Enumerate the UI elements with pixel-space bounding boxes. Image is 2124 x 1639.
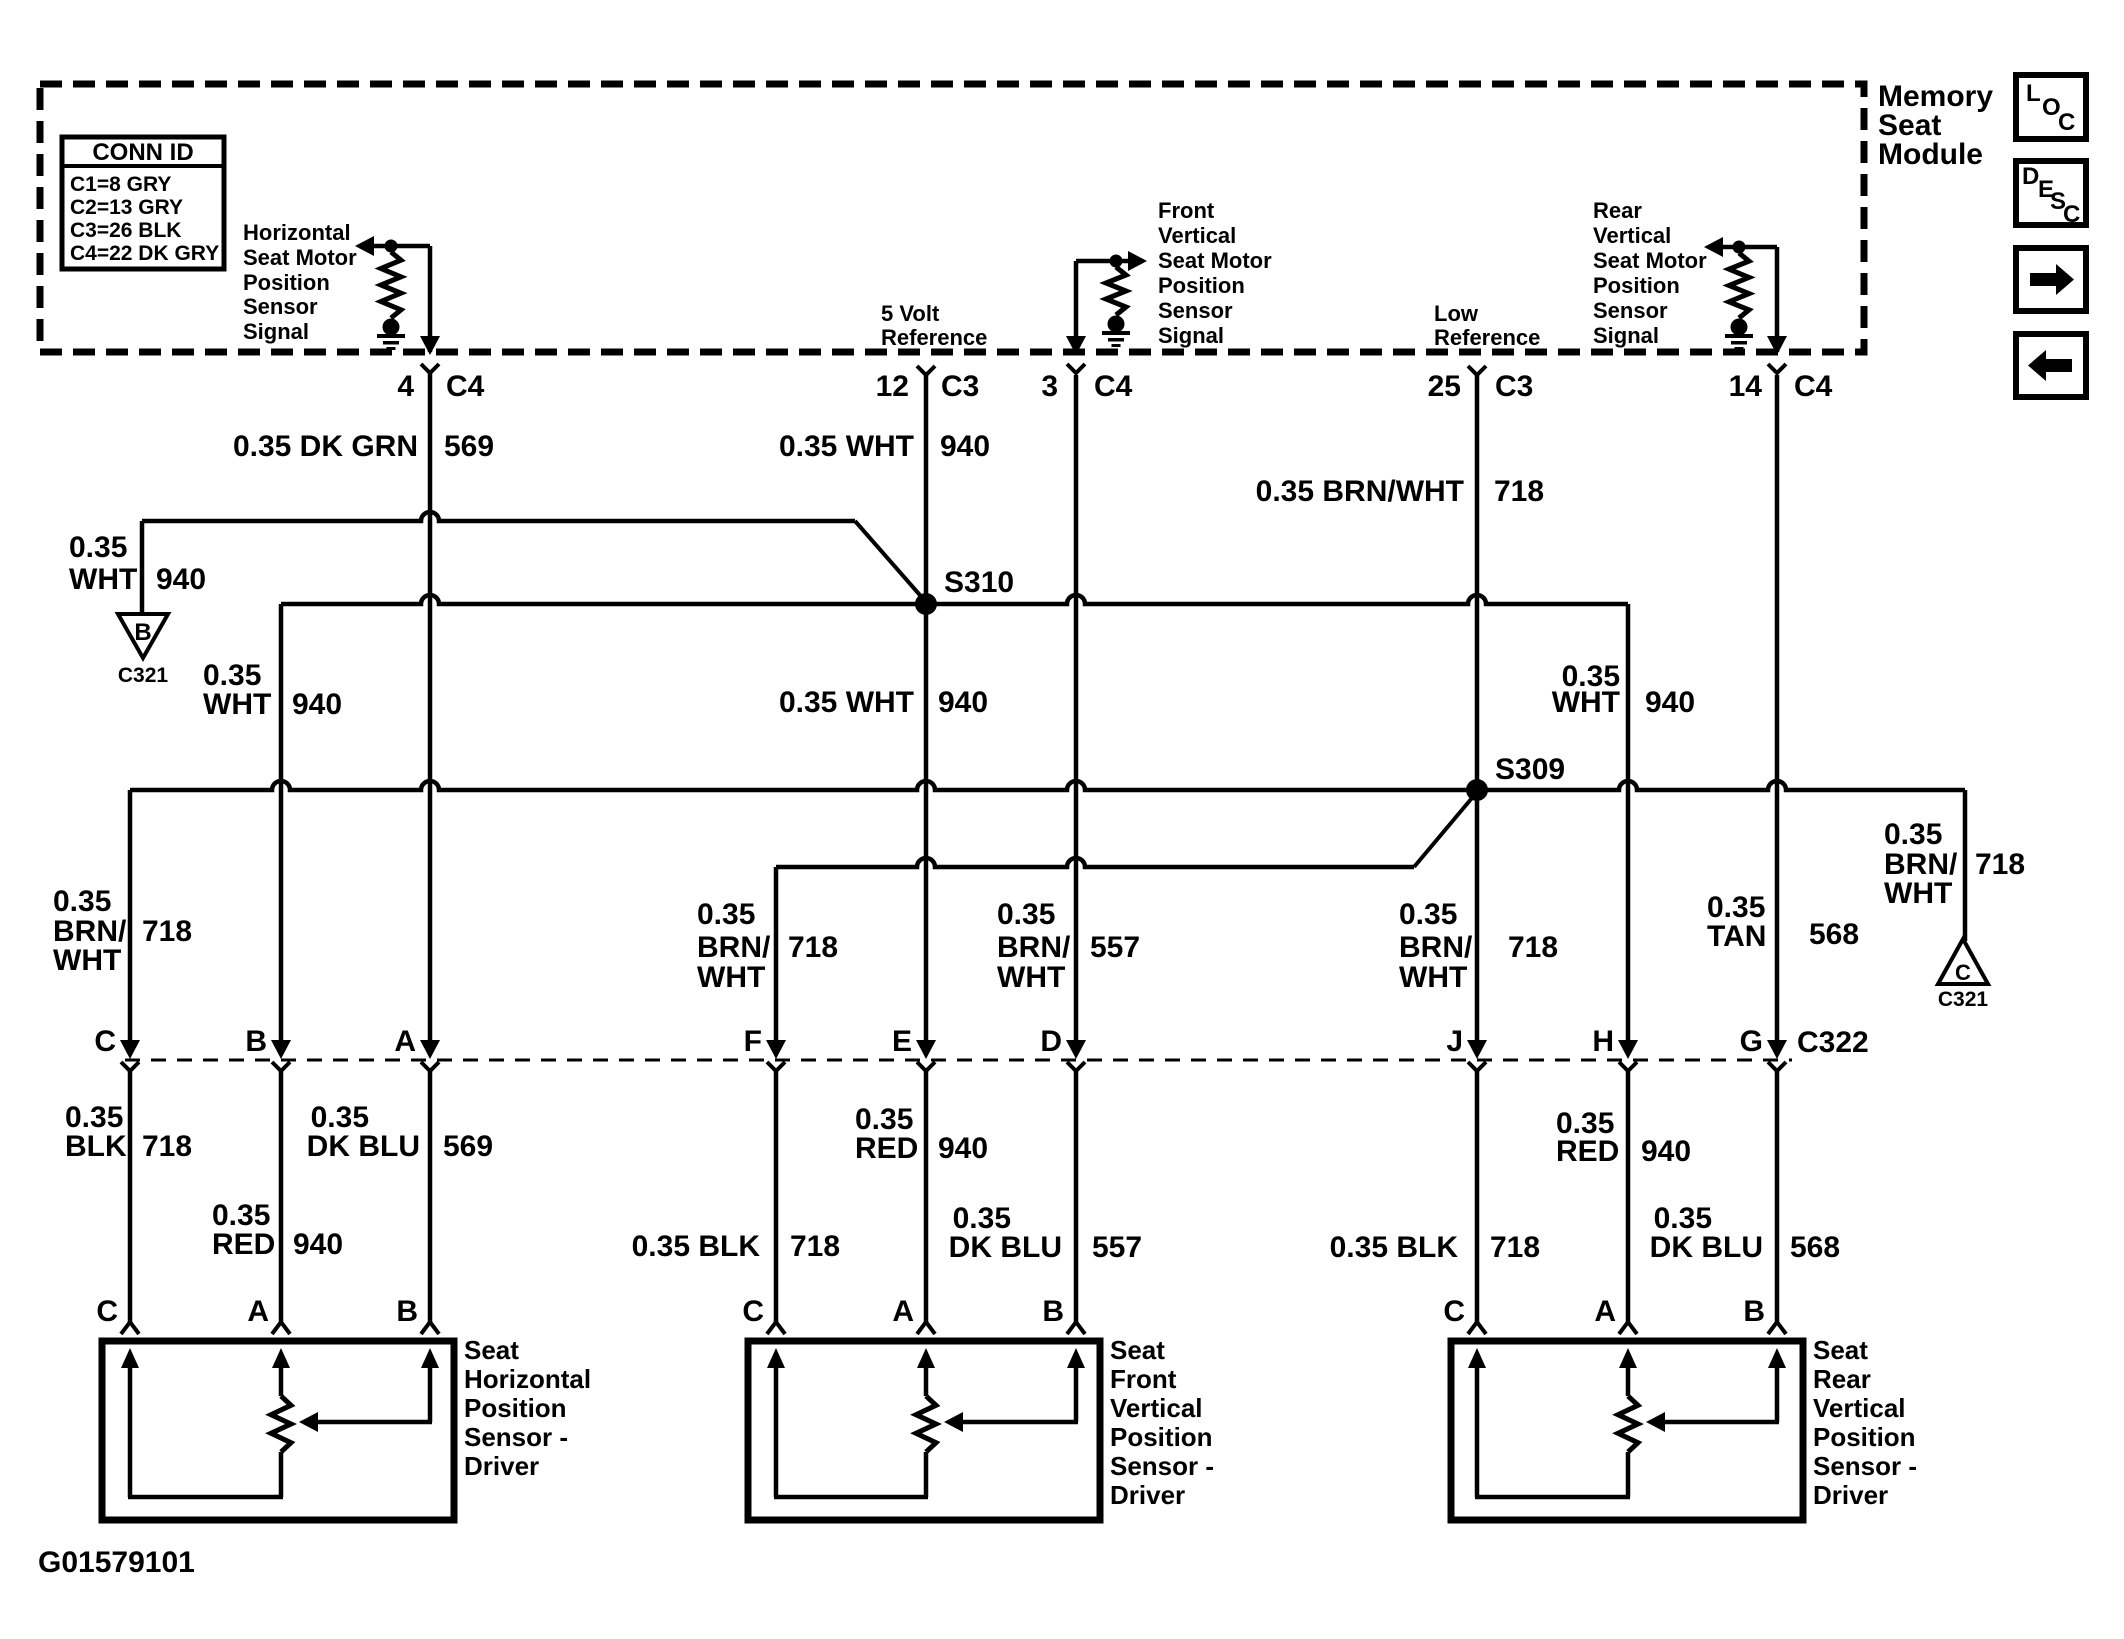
wire label 0.35 BLK 718 (sensor3 C) [1330, 1231, 1540, 1264]
connector C322 pin C [94, 1025, 140, 1071]
svg-text:E: E [892, 1025, 912, 1058]
svg-text:0.35: 0.35 [69, 531, 127, 564]
node: junction dot at resistor R2 top [1110, 255, 1123, 268]
svg-text:C: C [2058, 109, 2075, 136]
svg-text:940: 940 [940, 430, 990, 463]
sensor 3 internal wire pin C with up arrow [1468, 1348, 1486, 1497]
wire: splice branch to C321-B, horizontal run y=521 [142, 512, 855, 521]
svg-text:Vertical: Vertical [1158, 223, 1236, 248]
svg-text:940: 940 [938, 1132, 988, 1165]
svg-text:Rear: Rear [1593, 198, 1642, 223]
wire label 0.35 RED 940 (sensor1 A) [212, 1199, 343, 1261]
svg-text:S310: S310 [944, 566, 1014, 599]
svg-text:A: A [892, 1295, 914, 1328]
svg-text:BRN/: BRN/ [697, 931, 771, 964]
svg-text:WHT: WHT [997, 961, 1065, 994]
svg-text:WHT: WHT [1552, 686, 1620, 719]
svg-text:940: 940 [293, 1228, 343, 1261]
connector ID table [62, 137, 224, 269]
svg-text:C4=22 DK GRY: C4=22 DK GRY [70, 242, 219, 265]
svg-text:Driver: Driver [1813, 1480, 1888, 1510]
wire: C322 A to sensor1 pin B (0.35 DK BLU 569) [428, 1071, 433, 1322]
svg-text:G01579101: G01579101 [38, 1546, 195, 1579]
svg-text:C: C [2063, 201, 2080, 228]
svg-text:S309: S309 [1495, 753, 1565, 786]
connector C322 pin F [744, 1025, 786, 1071]
svg-text:940: 940 [938, 686, 988, 719]
svg-text:718: 718 [1490, 1231, 1540, 1264]
sensor 3 wire bottom return C to resistor [1475, 1495, 1630, 1500]
wire: C322 F to sensor2 pin C (0.35 BLK 718) [774, 1071, 779, 1322]
wire: C322 J to sensor3 pin C (0.35 BLK 718) [1475, 1071, 1480, 1322]
svg-text:Seat Motor: Seat Motor [243, 245, 357, 270]
module U1 name label [1878, 80, 1993, 171]
svg-text:0.35 DK GRN: 0.35 DK GRN [233, 430, 418, 463]
svg-text:Sensor -: Sensor - [1110, 1451, 1214, 1481]
pin 4 C4 connector fork [397, 364, 484, 403]
sensor 3 wiper arm with arrow [1646, 1412, 1779, 1432]
forward arrow button box [2016, 248, 2086, 311]
wire label 0.35 WHT 940 (B column) [203, 659, 342, 721]
connector C322 pin A [394, 1025, 440, 1071]
svg-text:0.35 WHT: 0.35 WHT [779, 686, 914, 719]
sensor box 3 outline [1451, 1341, 1803, 1520]
wire: G column (0.35 TAN 568) [1775, 375, 1780, 1042]
wire label 0.35 BRN/WHT 718 (low ref) [1256, 475, 1544, 508]
wire: F column (0.35 BRN/WHT 718) [774, 867, 779, 1042]
svg-text:3: 3 [1041, 370, 1058, 403]
svg-text:Rear: Rear [1813, 1364, 1871, 1394]
wire: A column (0.35 DK GRN 569) [428, 373, 433, 1042]
svg-text:568: 568 [1809, 918, 1859, 951]
svg-text:B: B [396, 1295, 418, 1328]
wire label 0.35 DK GRN 569 [233, 430, 494, 463]
wire: C322 C to sensor1 pin C (0.35 BLK 718) [128, 1071, 133, 1322]
svg-text:Front: Front [1110, 1364, 1177, 1394]
svg-text:DK BLU: DK BLU [1650, 1231, 1763, 1264]
sensor 1 internal wire pin C with up arrow [121, 1348, 139, 1497]
pin 3 C4 connector fork [1041, 364, 1132, 403]
svg-text:557: 557 [1092, 1231, 1142, 1264]
svg-text:WHT: WHT [69, 563, 137, 596]
svg-text:TAN: TAN [1707, 920, 1766, 953]
svg-text:WHT: WHT [1884, 877, 1952, 910]
wire: C322 G to sensor3 pin B (0.35 DK BLU 568) [1775, 1071, 1780, 1322]
wire: H column from bus 2 [1626, 604, 1631, 1042]
wire label 0.35 WHT 940 (H column) [1552, 660, 1695, 719]
potentiometer resistor inside sensor 1 [271, 1396, 291, 1452]
wire label 0.35 DK BLU 557 (sensor2 B) [949, 1202, 1142, 1264]
svg-text:569: 569 [444, 430, 494, 463]
sensor 2 wire bottom return C to resistor [774, 1495, 928, 1500]
connector C322 pin H [1592, 1025, 1638, 1071]
svg-text:WHT: WHT [1399, 961, 1467, 994]
svg-text:Position: Position [1110, 1422, 1213, 1452]
svg-text:Horizontal: Horizontal [464, 1364, 591, 1394]
resistor R3 (rear vertical position sensor internal) [1729, 253, 1749, 318]
svg-text:J: J [1446, 1025, 1463, 1058]
wire: C322 E to sensor2 pin A (0.35 RED 940) [924, 1071, 929, 1322]
svg-text:Position: Position [1158, 273, 1245, 298]
sensor 2 internal wire pin C with up arrow [767, 1348, 785, 1497]
svg-text:RED: RED [212, 1228, 275, 1261]
wire label 0.35 BLK 718 (sensor2 C) [632, 1230, 840, 1263]
svg-text:DK BLU: DK BLU [307, 1130, 420, 1163]
svg-text:Vertical: Vertical [1593, 223, 1671, 248]
wire: low reference bus y=790 through splice S309 [130, 781, 1965, 790]
potentiometer resistor inside sensor 3 [1618, 1396, 1638, 1452]
svg-text:BRN/: BRN/ [997, 931, 1071, 964]
svg-text:718: 718 [1975, 848, 2025, 881]
wire: pin 3 C4 drop inside module [1066, 261, 1086, 355]
svg-text:C3=26 BLK: C3=26 BLK [70, 219, 181, 242]
svg-text:DK BLU: DK BLU [949, 1231, 1062, 1264]
svg-text:Position: Position [243, 270, 330, 295]
svg-text:0.35 WHT: 0.35 WHT [779, 430, 914, 463]
sensor 1 internal wire pin A with up arrow [272, 1348, 290, 1396]
svg-text:718: 718 [1508, 931, 1558, 964]
connector C321 cavity C triangle [1938, 939, 1988, 985]
svg-text:Signal: Signal [243, 319, 309, 344]
sensor box 2 outline [748, 1341, 1100, 1520]
wire: E column below S310 [924, 375, 929, 1042]
label: 5 Volt Reference [881, 301, 987, 350]
svg-text:C321: C321 [1938, 988, 1989, 1011]
connector C322 pin B [245, 1025, 291, 1071]
label: Rear Vertical Seat Motor Position Sensor Signal [1593, 198, 1707, 348]
svg-text:Signal: Signal [1593, 323, 1659, 348]
svg-text:WHT: WHT [697, 961, 765, 994]
resistor R2 (front vertical position sensor internal) [1106, 267, 1126, 315]
svg-text:Seat Motor: Seat Motor [1593, 248, 1707, 273]
svg-text:Front: Front [1158, 198, 1215, 223]
ground symbol under R2 [1102, 316, 1130, 348]
svg-text:557: 557 [1090, 931, 1140, 964]
svg-text:Vertical: Vertical [1110, 1393, 1203, 1423]
svg-text:0.35: 0.35 [1399, 898, 1457, 931]
wire label 0.35 BRN/WHT 718 (C column) [53, 885, 192, 977]
pin 12 C3 connector fork [876, 366, 980, 403]
svg-text:B: B [134, 619, 151, 646]
pin 25 C3 connector fork [1428, 366, 1534, 403]
svg-text:C321: C321 [118, 664, 169, 687]
svg-text:Position: Position [1813, 1422, 1916, 1452]
svg-text:C: C [742, 1295, 764, 1328]
svg-text:D: D [2022, 163, 2039, 190]
connector C322 pin J [1446, 1025, 1487, 1071]
svg-text:568: 568 [1790, 1231, 1840, 1264]
wire: C322 B to sensor1 pin A (0.35 RED 940) [279, 1071, 284, 1322]
connector C322 pin E [892, 1025, 936, 1071]
svg-text:C: C [94, 1025, 116, 1058]
svg-text:C2=13 GRY: C2=13 GRY [70, 196, 183, 219]
svg-text:Driver: Driver [1110, 1480, 1185, 1510]
svg-text:C: C [1443, 1295, 1465, 1328]
module U1: Memory Seat Module dashed boundary [40, 84, 1864, 352]
node: junction dot at resistor R1 top [385, 240, 398, 253]
sensor 1 wiper arm with arrow [299, 1412, 432, 1432]
sensor 3 pin C entry fork [1443, 1295, 1486, 1334]
wire: pin 4 C4 drop inside module [420, 246, 440, 355]
wire label 0.35 RED 940 (sensor2 A) [855, 1103, 988, 1165]
sensor 3 internal wire pin A with up arrow [1619, 1348, 1637, 1396]
svg-text:940: 940 [1641, 1135, 1691, 1168]
svg-text:0.35: 0.35 [1884, 818, 1942, 851]
wire label 0.35 WHT 940 (to C321-B) [69, 531, 206, 596]
svg-text:940: 940 [156, 563, 206, 596]
sensor 1 internal wire pin B with up arrow [421, 1348, 439, 1422]
wire: C column (0.35 BRN/WHT 718) [128, 790, 133, 1042]
svg-text:A: A [247, 1295, 269, 1328]
wire: drop to C321-C triangle [1963, 790, 1968, 941]
svg-text:Reference: Reference [881, 325, 987, 350]
svg-text:Module: Module [1878, 138, 1983, 171]
sensor 3 internal wire pin B with up arrow [1768, 1348, 1786, 1422]
sensor 2 wiper arm with arrow [944, 1412, 1078, 1432]
wire label 0.35 BRN/WHT 718 (to C321-C) [1884, 818, 2025, 910]
sensor 1 wire resistor bottom leg [279, 1452, 284, 1497]
sensor 1 name label [464, 1335, 591, 1481]
connector C321 cavity B triangle [118, 614, 168, 658]
connector C322 dashed line [125, 1059, 1792, 1062]
sensor 2 name label [1110, 1335, 1214, 1510]
sensor 1 wire bottom return C to resistor [128, 1495, 283, 1500]
wire label 0.35 BRN/WHT 718 (J column) [1399, 898, 1558, 994]
sensor 1 pin C entry fork [96, 1295, 139, 1334]
svg-text:C4: C4 [1794, 370, 1833, 403]
svg-text:C: C [1955, 960, 1971, 985]
svg-text:G: G [1740, 1025, 1763, 1058]
svg-text:C1=8 GRY: C1=8 GRY [70, 173, 171, 196]
pin 14 C4 connector fork [1729, 364, 1833, 403]
svg-text:C: C [96, 1295, 118, 1328]
wire: diagonal into splice S310 [855, 521, 926, 602]
svg-text:0.35: 0.35 [697, 898, 755, 931]
sensor 3 name label [1813, 1335, 1917, 1510]
sensor 2 internal wire pin B with up arrow [1067, 1348, 1085, 1422]
svg-text:Seat: Seat [1110, 1335, 1165, 1365]
connector C322 pin G [1740, 1025, 1787, 1071]
svg-text:L: L [2026, 80, 2041, 107]
wire label 0.35 DK BLU 568 (sensor3 B) [1650, 1202, 1840, 1264]
splice S309 node [1466, 779, 1488, 801]
svg-text:718: 718 [788, 931, 838, 964]
back arrow button box [2016, 334, 2086, 397]
svg-text:940: 940 [1645, 686, 1695, 719]
svg-text:718: 718 [1494, 475, 1544, 508]
DESC button box [2016, 161, 2086, 228]
svg-text:RED: RED [1556, 1135, 1619, 1168]
resistor R1 (horizontal position sensor internal) [381, 252, 401, 318]
ground symbol under R1 [377, 319, 405, 351]
svg-text:CONN ID: CONN ID [92, 139, 193, 166]
svg-text:718: 718 [142, 915, 192, 948]
svg-text:C4: C4 [1094, 370, 1133, 403]
svg-text:Signal: Signal [1158, 323, 1224, 348]
svg-text:Vertical: Vertical [1813, 1393, 1906, 1423]
splice S310 node [915, 593, 937, 615]
sensor 2 pin A entry fork [892, 1295, 935, 1334]
node: junction dot at resistor R3 top [1733, 241, 1746, 254]
svg-text:Horizontal: Horizontal [243, 220, 351, 245]
svg-text:D: D [1040, 1025, 1062, 1058]
svg-text:Seat: Seat [1813, 1335, 1868, 1365]
sensor 3 wire resistor bottom leg [1626, 1452, 1631, 1497]
wire: 5V reference bus y=604 through splice S310 [281, 595, 1628, 604]
sensor box 1 outline [102, 1341, 454, 1520]
sensor 2 pin B entry fork [1042, 1295, 1085, 1334]
LOC button box [2016, 75, 2086, 139]
svg-text:0.35 BRN/WHT: 0.35 BRN/WHT [1256, 475, 1464, 508]
wire label 0.35 TAN 568 (G column) [1707, 891, 1859, 953]
svg-text:12: 12 [876, 370, 909, 403]
wire: pin 14 C4 drop inside module [1767, 247, 1787, 355]
svg-text:Driver: Driver [464, 1451, 539, 1481]
svg-text:C3: C3 [941, 370, 979, 403]
svg-text:718: 718 [790, 1230, 840, 1263]
svg-text:Position: Position [1593, 273, 1680, 298]
svg-text:WHT: WHT [53, 944, 121, 977]
svg-text:Sensor: Sensor [1158, 298, 1233, 323]
svg-text:BLK: BLK [65, 1130, 127, 1163]
label: Low Reference [1434, 301, 1540, 350]
wire: C322 H to sensor3 pin A (0.35 RED 940) [1626, 1071, 1631, 1322]
wire: rear vertical signal stub with direction arrow [1704, 237, 1777, 257]
svg-text:C322: C322 [1797, 1026, 1869, 1059]
sensor 3 pin A entry fork [1594, 1295, 1637, 1334]
svg-text:B: B [1743, 1295, 1765, 1328]
wire: diagonal into splice S309 [1414, 792, 1477, 867]
svg-text:C3: C3 [1495, 370, 1533, 403]
svg-text:WHT: WHT [203, 688, 271, 721]
ground symbol under R3 [1725, 319, 1753, 351]
wire: J column (low ref drop) [1475, 375, 1480, 1042]
connector C322 pin D [1040, 1025, 1086, 1071]
svg-text:0.35 BLK: 0.35 BLK [1330, 1231, 1459, 1264]
sensor 2 wire resistor bottom leg [924, 1452, 929, 1497]
wire label 0.35 BRN/WHT 718 (F column) [697, 898, 838, 994]
svg-text:Seat: Seat [464, 1335, 519, 1365]
svg-text:A: A [1594, 1295, 1616, 1328]
svg-text:F: F [744, 1025, 762, 1058]
wire: front vertical signal stub with direction arrow [1076, 251, 1147, 271]
wire: drop to C321-B triangle [140, 521, 145, 614]
svg-text:Sensor -: Sensor - [464, 1422, 568, 1452]
wire: C322 D to sensor2 pin B (0.35 DK BLU 557) [1074, 1071, 1079, 1322]
svg-text:Position: Position [464, 1393, 567, 1423]
svg-text:4: 4 [397, 370, 414, 403]
wire label 0.35 BRN/WHT 557 (D column) [997, 898, 1140, 994]
svg-text:H: H [1592, 1025, 1614, 1058]
wire label 0.35 WHT 940 (E column) [779, 686, 988, 719]
sensor 3 pin B entry fork [1743, 1295, 1786, 1334]
svg-text:718: 718 [142, 1130, 192, 1163]
svg-text:Reference: Reference [1434, 325, 1540, 350]
svg-text:C4: C4 [446, 370, 485, 403]
label: Front Vertical Seat Motor Position Sensor Signal [1158, 198, 1272, 348]
svg-text:A: A [394, 1025, 416, 1058]
wire: D column (0.35 BRN/WHT 557) [1074, 375, 1079, 1042]
sensor 1 pin A entry fork [247, 1295, 290, 1334]
svg-text:5 Volt: 5 Volt [881, 301, 940, 326]
svg-text:940: 940 [292, 688, 342, 721]
svg-text:0.35: 0.35 [997, 898, 1055, 931]
sensor 2 pin C entry fork [742, 1295, 785, 1334]
svg-text:RED: RED [855, 1132, 918, 1165]
wire label 0.35 BLK 718 (sensor1 C) [65, 1101, 192, 1163]
svg-text:Low: Low [1434, 301, 1479, 326]
sensor 1 pin B entry fork [396, 1295, 439, 1334]
svg-text:569: 569 [443, 1130, 493, 1163]
wire label 0.35 DK BLU 569 (sensor1 B) [307, 1101, 493, 1163]
svg-text:Sensor: Sensor [1593, 298, 1668, 323]
sensor 2 internal wire pin A with up arrow [917, 1348, 935, 1396]
svg-text:Sensor: Sensor [243, 294, 318, 319]
wire label 0.35 WHT 940 (5V ref) [779, 430, 990, 463]
svg-text:Sensor -: Sensor - [1813, 1451, 1917, 1481]
wire: brn/wht bus y=867 into splice S309 [776, 858, 1414, 867]
wire: B column (0.35 WHT 940) [279, 604, 284, 1042]
svg-text:14: 14 [1729, 370, 1763, 403]
svg-text:BRN/: BRN/ [1399, 931, 1473, 964]
wire: horizontal signal stub with direction arrow [355, 236, 430, 256]
svg-text:0.35 BLK: 0.35 BLK [632, 1230, 761, 1263]
svg-text:25: 25 [1428, 370, 1461, 403]
svg-text:0.35: 0.35 [53, 885, 111, 918]
svg-text:Seat Motor: Seat Motor [1158, 248, 1272, 273]
svg-text:B: B [245, 1025, 267, 1058]
wire label 0.35 RED 940 (sensor3 A) [1556, 1107, 1691, 1168]
svg-text:B: B [1042, 1295, 1064, 1328]
potentiometer resistor inside sensor 2 [916, 1396, 936, 1452]
label: Horizontal Seat Motor Position Sensor Signal [243, 220, 357, 344]
